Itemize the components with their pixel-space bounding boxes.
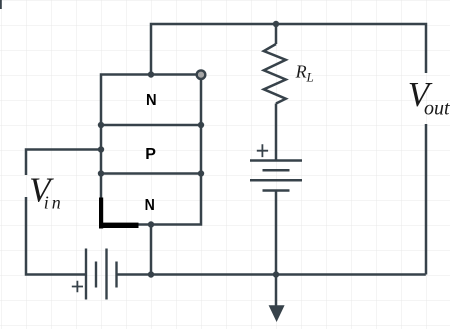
node terminal gray circle (197, 70, 206, 79)
svg-text:N: N (145, 197, 155, 214)
battery B2 plate tall right (105, 249, 107, 300)
wire battery B1 to ground (275, 191, 278, 307)
edge artifact top-left (0, 0, 2, 9)
wire resistor to battery (275, 104, 278, 161)
node dot left P-N (98, 170, 104, 176)
battery B1 plate long lower (250, 179, 302, 182)
battery B1 plate long top (250, 159, 302, 162)
node dot top rail resistor (273, 21, 279, 27)
svg-text:L: L (306, 70, 314, 85)
node dot Vin-base (98, 146, 104, 152)
svg-text:out: out (424, 98, 450, 120)
node dot emitter (148, 221, 154, 227)
svg-text:N: N (146, 92, 157, 109)
emitter contact mark horizontal (99, 223, 139, 228)
battery B2 plate tall left (85, 249, 87, 300)
node dot bottom rail ground (273, 271, 279, 277)
wire top rail from collector to Vout (151, 24, 426, 75)
wire emitter to bottom rail (150, 225, 153, 275)
emitter contact mark vertical (99, 198, 103, 229)
battery B1 plate short upper (263, 169, 290, 172)
svg-text:P: P (145, 146, 156, 163)
wire Vout lower segment (425, 124, 428, 275)
junction N-P divider (101, 124, 201, 127)
node dot bottom rail left (148, 271, 154, 277)
battery B1 plate short bottom (263, 189, 290, 192)
node dot right N-P (198, 122, 204, 128)
resistor RL zigzag (264, 44, 286, 104)
wire resistor top stub (275, 24, 278, 44)
svg-text:R: R (295, 61, 307, 81)
transistor body NPN block (101, 75, 201, 225)
wire Vin stub to base (26, 150, 101, 176)
node dot right P-N (198, 170, 204, 176)
node dot collector (148, 71, 154, 77)
ground arrow (269, 305, 285, 322)
plus sign battery B1 (257, 144, 268, 157)
battery B2 plate short left (95, 262, 97, 288)
junction P-N divider (101, 172, 201, 175)
node dot base-left N-P (98, 122, 104, 128)
svg-text:in: in (44, 193, 64, 213)
plus sign battery B2 (72, 281, 83, 292)
wire bottom rail (117, 273, 426, 276)
battery B2 plate short right (115, 262, 117, 288)
wire Vin left vertical lower (26, 197, 86, 275)
